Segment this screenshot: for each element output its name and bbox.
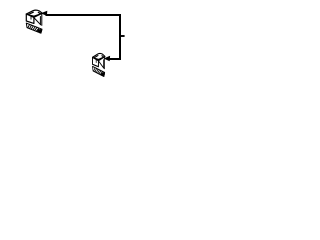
bracket wall line 1	[39, 17, 41, 25]
box top face	[26, 10, 42, 17]
wire junction tick	[120, 35, 125, 37]
plate hatch 6	[36, 28, 39, 31]
plate hatch 7	[38, 29, 41, 32]
plate hatch 1	[94, 68, 95, 72]
box rim inner outline	[94, 56, 104, 60]
bracket wall line 2	[104, 57, 106, 69]
wire: top horizontal segment	[46, 14, 122, 16]
bracket plate outline	[93, 66, 105, 76]
plate hatch 6	[100, 71, 102, 74]
bracket wall line 2	[41, 13, 43, 25]
bracket plate dark end	[101, 72, 105, 77]
box inner notch	[30, 16, 32, 19]
bracket gusset diagonal	[98, 61, 103, 68]
bracket plate dark end	[37, 29, 42, 34]
bracket gusset diagonal	[34, 18, 41, 25]
bracket plate outline	[26, 23, 42, 33]
box rim inner outline	[28, 12, 41, 16]
plate hatch 5	[35, 27, 38, 30]
plate hatch 4	[33, 27, 35, 30]
box left face	[26, 14, 34, 23]
plate hatch 3	[31, 26, 33, 29]
leader arrow to connector B	[104, 56, 111, 61]
plate hatch 2	[30, 25, 32, 29]
plate hatch 3	[96, 69, 98, 72]
box left face	[93, 57, 99, 66]
plate hatch 1	[28, 24, 30, 28]
plate hatch 2	[95, 68, 97, 72]
connector icon A (left): isometric connector box on hatched bracket	[26, 10, 42, 33]
leader arrow to connector A	[41, 11, 48, 16]
box inner notch	[95, 60, 97, 63]
plate hatch 4	[98, 70, 100, 73]
bracket wall line 1	[103, 60, 105, 68]
plate hatch 5	[99, 71, 101, 74]
box top face	[93, 53, 105, 60]
plate hatch 8	[40, 29, 42, 33]
wire: bottom horizontal segment	[110, 58, 122, 60]
connector icon B (right): isometric connector box on hatched bracket	[93, 53, 105, 76]
wire: right vertical segment	[119, 14, 121, 60]
plate hatch 7	[102, 72, 104, 75]
plate hatch 8	[103, 73, 105, 77]
